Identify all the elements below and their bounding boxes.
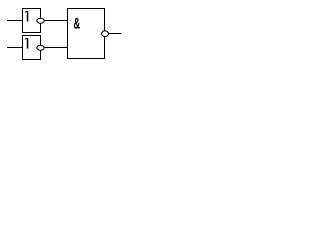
AND gate U3 label ampersand: [74, 18, 80, 28]
inverter U1 output bubble: [37, 18, 44, 23]
inverter U2 box: [23, 36, 41, 60]
inverter U1 label 1: [25, 11, 28, 22]
wire U1 output to AND input: [44, 20, 68, 22]
inverter U2 output bubble: [37, 45, 44, 50]
wire U2 output to AND input: [44, 47, 68, 49]
AND gate U3 output bubble: [102, 31, 109, 37]
inverter U1 box: [23, 9, 41, 33]
wire output Y: [109, 33, 122, 35]
wire input B: [7, 47, 23, 49]
wire input A: [7, 20, 23, 22]
inverter U2 label 1: [25, 38, 28, 49]
AND gate U3 box: [68, 9, 105, 59]
